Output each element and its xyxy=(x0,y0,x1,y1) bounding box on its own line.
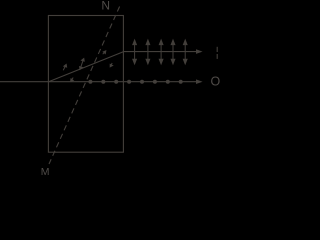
o-ray arrowhead xyxy=(196,79,203,84)
e-ray inside crystal xyxy=(49,52,124,82)
e-ray polarization arrow 5 (down) xyxy=(110,63,112,67)
e-ray polarization arrow 3 (double) xyxy=(80,59,85,70)
e-ray polarization arrow 4 (up) xyxy=(103,51,106,54)
o-ray dot 6 xyxy=(153,80,157,84)
e-ray polarization arrow 2 (down) xyxy=(71,78,74,82)
incident ray xyxy=(0,81,49,83)
e-ray vertical double arrow 1 xyxy=(133,40,137,64)
e-ray vertical double arrow 3 xyxy=(159,40,163,64)
o-ray dot 1 xyxy=(88,80,92,84)
svg-text:N: N xyxy=(101,0,110,12)
e-ray arrowhead xyxy=(196,49,203,54)
e-ray vertical double arrow 2 xyxy=(146,40,150,64)
e-ray vertical double arrow 5 xyxy=(183,40,187,64)
e-ray outside crystal xyxy=(123,51,197,53)
e-ray polarization arrow 1 (up) xyxy=(63,64,66,70)
crystal rectangle xyxy=(48,16,123,153)
o-ray dot 7 xyxy=(166,80,170,84)
o-ray dot 3 xyxy=(114,80,118,84)
o-ray dot 4 xyxy=(127,80,131,84)
e-ray vertical double arrow 4 xyxy=(171,40,175,64)
svg-text:O: O xyxy=(211,74,221,88)
optic axis MN (dashed) xyxy=(49,7,120,165)
right-edge partial double arrow xyxy=(216,47,218,59)
o-ray xyxy=(49,81,197,83)
o-ray dot 8 xyxy=(179,80,183,84)
o-ray dot 2 xyxy=(101,80,105,84)
o-ray dot 5 xyxy=(140,80,144,84)
svg-text:M: M xyxy=(41,166,50,176)
